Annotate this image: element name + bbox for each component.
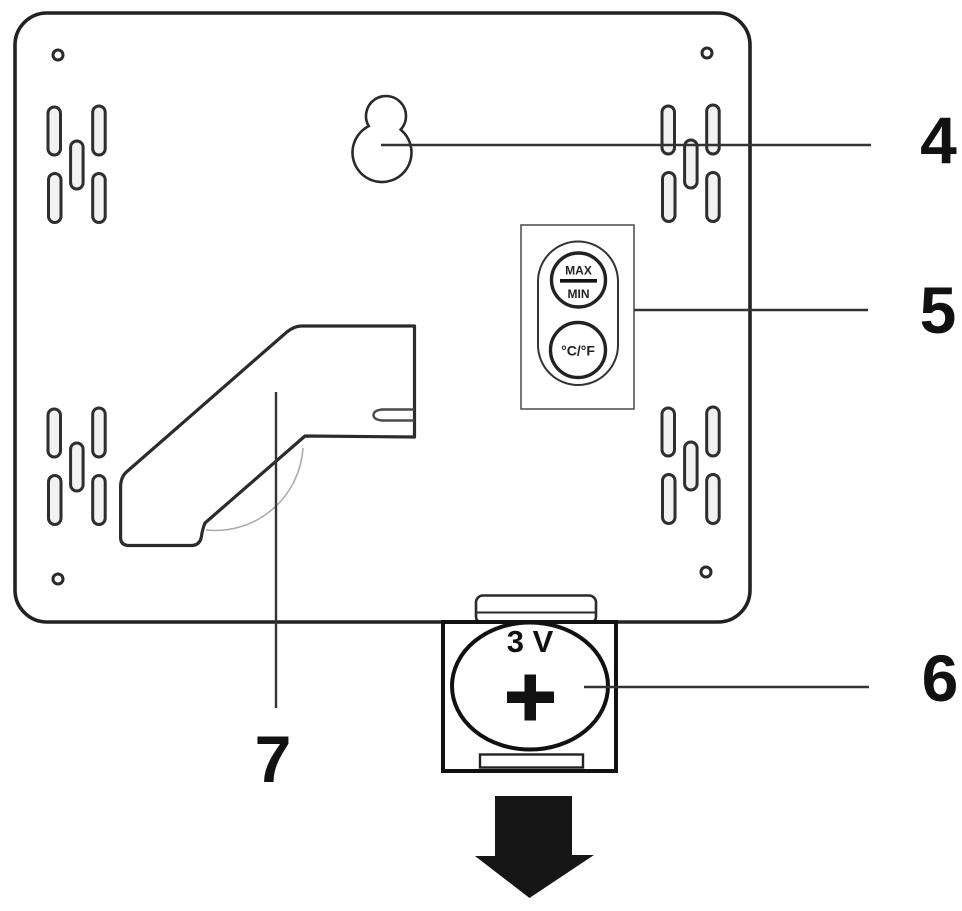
battery compartment — [443, 622, 616, 771]
svg-text:4: 4 — [920, 103, 957, 177]
svg-text:MIN: MIN — [568, 287, 590, 301]
vent slots top-left — [48, 106, 105, 223]
stand latch slot — [374, 410, 415, 421]
leader line 7 — [275, 392, 277, 708]
screw top-right — [702, 48, 712, 58]
svg-text:3 V: 3 V — [507, 624, 554, 659]
leader line 6 — [584, 686, 869, 688]
vent slots bottom-left — [48, 408, 105, 525]
button C/F — [551, 323, 606, 378]
battery bottom tab — [480, 755, 583, 768]
svg-text:6: 6 — [922, 641, 959, 715]
battery plus symbol — [507, 692, 554, 704]
vent slots bottom-right — [662, 407, 719, 524]
button MAX/MIN — [552, 253, 606, 307]
battery removal arrow — [475, 796, 594, 898]
svg-text:7: 7 — [255, 722, 292, 796]
device back panel — [15, 13, 750, 622]
svg-text:MAX: MAX — [565, 264, 592, 278]
leader line 4 — [381, 144, 871, 146]
stand rotation arc — [206, 448, 303, 530]
screw top-left — [53, 50, 63, 60]
keyhole hanger — [352, 96, 411, 182]
leader line 5 — [634, 309, 868, 311]
screw bottom-right — [701, 567, 711, 577]
svg-text:°C/°F: °C/°F — [561, 343, 595, 359]
button panel outline — [521, 225, 634, 409]
vent slots top-right — [662, 105, 719, 222]
button capsule — [538, 242, 618, 386]
battery tab top — [476, 596, 596, 624]
svg-text:5: 5 — [920, 273, 957, 347]
battery tab inner line — [477, 612, 595, 614]
battery cell 3V — [452, 623, 608, 750]
screw bottom-left — [53, 574, 63, 584]
fold-out stand — [121, 326, 415, 546]
